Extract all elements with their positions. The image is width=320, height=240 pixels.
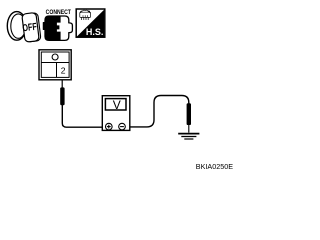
svg-text:CONNECT: CONNECT — [46, 9, 71, 16]
mini connector sketch inside H.S. icon — [80, 10, 91, 20]
ignition key OFF icon — [7, 12, 41, 43]
minus terminal — [119, 123, 126, 130]
horizontal divider — [41, 62, 69, 64]
wire from voltmeter to ground probe — [130, 96, 189, 127]
wire from probe to voltmeter — [62, 105, 102, 128]
plus terminal — [106, 123, 113, 130]
probe tip — [188, 125, 190, 133]
svg-text:OFF: OFF — [22, 22, 37, 35]
cavity circle — [52, 54, 58, 60]
ground symbol — [178, 134, 199, 139]
voltmeter — [102, 96, 130, 131]
svg-text:2: 2 — [61, 66, 66, 76]
vertical divider — [56, 63, 58, 78]
connector box with pin 2 — [39, 50, 71, 80]
H.S. icon — [76, 9, 105, 37]
test probe (left) — [60, 87, 64, 105]
test probe (right) — [187, 103, 191, 125]
svg-text:BKIA0250E: BKIA0250E — [196, 162, 233, 171]
probe stem from pin 2 — [61, 80, 63, 88]
svg-text:V: V — [113, 98, 121, 112]
CONNECT icon (mating connector halves) — [43, 16, 72, 40]
svg-text:H.S.: H.S. — [86, 27, 104, 37]
